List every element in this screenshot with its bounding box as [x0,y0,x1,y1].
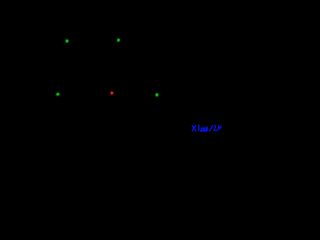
green light 4 (bottom right) [154,92,159,98]
slash [209,125,212,131]
trailing glyphs [214,126,217,131]
green light 1 (top left) [64,38,70,44]
red star glint (bottom middle) [109,90,114,95]
cursive word with underline [198,125,200,131]
green light 2 (top middle) [116,37,121,43]
blue artist signature bottom right [192,125,221,132]
green light 3 (bottom left) [55,91,61,97]
X glyph [192,126,196,131]
